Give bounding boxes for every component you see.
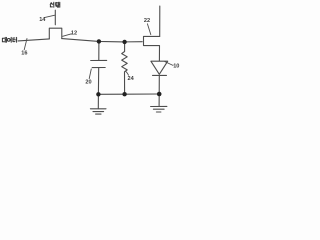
svg-text:10: 10 — [173, 64, 179, 70]
svg-text:24: 24 — [128, 76, 135, 82]
svg-text:22: 22 — [144, 18, 150, 24]
svg-text:12: 12 — [71, 30, 77, 36]
svg-text:14: 14 — [39, 17, 46, 23]
svg-text:20: 20 — [85, 80, 91, 86]
svg-text:16: 16 — [21, 51, 27, 57]
